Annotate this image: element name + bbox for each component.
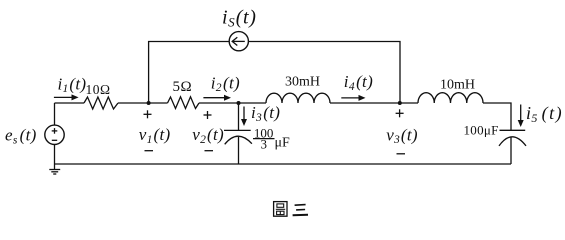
svg-text:v3(t): v3(t) — [386, 125, 418, 146]
svg-text:i3(t): i3(t) — [251, 103, 280, 124]
svg-text:μF: μF — [275, 136, 291, 151]
label eS(t) — [5, 126, 37, 147]
inductor 30mH — [266, 93, 330, 103]
current source iS — [229, 32, 248, 51]
inductor 10mH — [418, 93, 483, 103]
label 100/3 uF fraction — [253, 125, 290, 151]
wire cap C2 to bottom — [510, 137, 512, 164]
label i3(t) — [251, 103, 280, 124]
label 5ohm — [173, 79, 193, 95]
plus v1 — [144, 110, 152, 118]
capacitor C1 100/3uF top plate — [224, 129, 251, 131]
svg-text:i1(t): i1(t) — [58, 74, 87, 95]
ground — [49, 170, 60, 175]
label i2(t) — [211, 73, 240, 94]
svg-text:10mH: 10mH — [440, 77, 475, 92]
arrow i4 — [341, 95, 365, 101]
capacitor C1 100/3uF curved plate — [225, 136, 252, 144]
label v3(t) — [386, 125, 418, 146]
arrow i5 — [518, 105, 524, 128]
voltage source eS — [45, 103, 64, 169]
svg-text:i4(t): i4(t) — [344, 72, 373, 93]
resistor 5ohm — [168, 97, 200, 109]
wire branch node B to cap C1 — [238, 103, 240, 130]
wire bottom — [55, 163, 512, 165]
label 30mH — [285, 75, 320, 90]
wire between 5ohm and node B — [199, 102, 266, 104]
wire between node C and 10mH — [400, 102, 418, 104]
svg-text:iS(t): iS(t) — [222, 6, 256, 29]
svg-text:v2(t): v2(t) — [192, 125, 224, 146]
arrow i3 — [241, 107, 247, 127]
label 10ohm — [86, 82, 111, 97]
node C junction dot — [398, 101, 402, 105]
caption figure three char san — [293, 205, 308, 216]
wire cap C1 to bottom — [238, 137, 240, 164]
wire top loop — [149, 42, 400, 104]
minus v2 — [205, 150, 214, 152]
plus v2 — [204, 111, 212, 119]
svg-text:i2(t): i2(t) — [211, 73, 240, 94]
svg-text:10Ω: 10Ω — [86, 82, 111, 97]
minus v1 — [145, 150, 154, 152]
label 100uF — [464, 122, 499, 137]
arrow i1 — [54, 94, 79, 100]
svg-text:v1(t): v1(t) — [139, 125, 171, 146]
svg-text:100μF: 100μF — [464, 122, 499, 137]
wire right top to cap C2 — [483, 103, 511, 130]
caption figure three char tu — [274, 202, 287, 217]
svg-text:30mH: 30mH — [285, 75, 320, 90]
plus v3 — [396, 109, 404, 117]
arrow i2 — [203, 95, 231, 101]
label v2(t) — [192, 125, 224, 146]
label 10mH — [440, 77, 475, 92]
svg-text:5Ω: 5Ω — [173, 79, 193, 95]
wire main left segment — [55, 102, 85, 104]
minus v3 — [397, 153, 406, 155]
label i4(t) — [344, 72, 373, 93]
capacitor C2 100uF curved plate — [499, 137, 526, 146]
label v1(t) — [139, 125, 171, 146]
label i5(t) — [526, 103, 562, 125]
node A junction dot — [147, 101, 151, 105]
resistor 10ohm — [84, 97, 118, 109]
label i1(t) — [58, 74, 87, 95]
label iS(t) — [222, 6, 256, 29]
wire between 30mH and node C — [330, 102, 400, 104]
svg-text:3: 3 — [261, 137, 268, 152]
svg-text:es(t): es(t) — [5, 126, 37, 147]
node B junction dot — [237, 101, 241, 105]
capacitor C2 100uF top plate — [500, 129, 526, 131]
wire between 10ohm and node A — [118, 102, 168, 104]
